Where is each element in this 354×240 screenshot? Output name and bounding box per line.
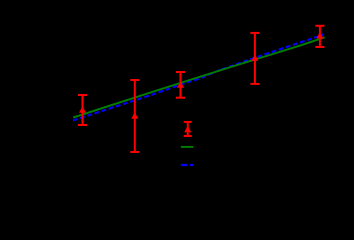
marker triangle P4: [251, 54, 258, 61]
marker triangle P5: [316, 32, 323, 39]
legend blue dashed sample: [181, 164, 194, 166]
data errorbar P3: [176, 72, 185, 98]
green solid fit line: [73, 37, 325, 117]
marker triangle P1: [79, 106, 86, 113]
data errorbar P5: [315, 26, 324, 47]
marker triangle P2: [131, 112, 138, 119]
legend marker triangle: [184, 126, 191, 133]
data errorbar P4: [250, 33, 259, 84]
blue dashed fit line: [73, 34, 324, 120]
legend errorbar sample: [184, 122, 192, 136]
marker triangle P3: [177, 81, 184, 88]
data errorbar P2: [130, 80, 139, 152]
legend green line sample: [181, 146, 193, 148]
data errorbar P1: [78, 95, 87, 125]
